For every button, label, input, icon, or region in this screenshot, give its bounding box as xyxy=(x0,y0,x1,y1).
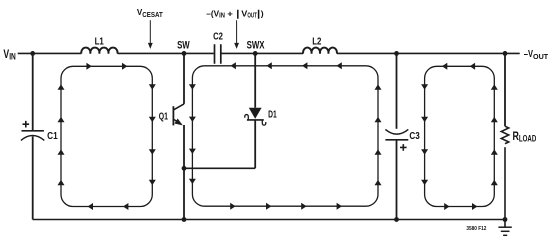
svg-text:C1: C1 xyxy=(47,130,58,142)
svg-text:VCESAT: VCESAT xyxy=(137,7,163,19)
svg-text:OUT: OUT xyxy=(247,13,257,20)
svg-text:SWX: SWX xyxy=(247,39,265,51)
svg-text:–VOUT: –VOUT xyxy=(524,49,549,61)
svg-text:VIN: VIN xyxy=(3,49,15,61)
svg-text:L2: L2 xyxy=(312,36,322,47)
svg-text:): ) xyxy=(261,8,264,18)
svg-text:C3: C3 xyxy=(409,130,420,142)
svg-text:C2: C2 xyxy=(213,30,223,42)
svg-text:D1: D1 xyxy=(268,109,277,121)
svg-text:3580 F12: 3580 F12 xyxy=(466,226,486,232)
svg-text:Q1: Q1 xyxy=(159,111,168,122)
svg-text:SW: SW xyxy=(177,39,190,51)
svg-text:RLOAD: RLOAD xyxy=(513,131,537,143)
svg-text:L1: L1 xyxy=(95,36,105,47)
svg-text:–(VIN+: –(VIN+ xyxy=(206,8,233,19)
